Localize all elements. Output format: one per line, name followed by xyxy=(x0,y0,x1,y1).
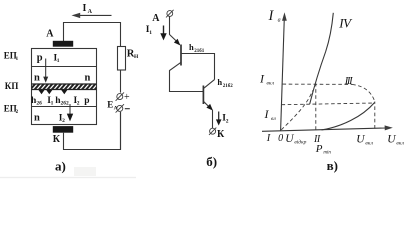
svg-text:б): б) xyxy=(206,154,217,169)
svg-text:1: 1 xyxy=(57,58,60,64)
svg-text:вл: вл xyxy=(271,116,276,122)
svg-text:а: а xyxy=(278,18,281,24)
svg-text:відкр: відкр xyxy=(294,138,306,145)
svg-text:вкл: вкл xyxy=(365,140,373,146)
svg-text:1: 1 xyxy=(51,101,54,107)
svg-text:I: I xyxy=(83,3,87,14)
svg-text:h: h xyxy=(189,42,194,52)
svg-text:+: + xyxy=(124,92,130,103)
svg-text:21б2: 21б2 xyxy=(223,84,234,89)
svg-text:p: p xyxy=(84,96,89,106)
svg-text:А: А xyxy=(46,29,54,40)
svg-text:2: 2 xyxy=(77,101,80,107)
svg-text:вкл: вкл xyxy=(396,140,404,146)
svg-text:КП: КП xyxy=(5,81,19,91)
svg-text:P: P xyxy=(315,143,323,155)
svg-text:U: U xyxy=(285,133,294,145)
svg-text:n: n xyxy=(85,72,91,83)
svg-text:n: n xyxy=(34,72,40,83)
svg-text:2: 2 xyxy=(226,118,229,124)
svg-text:а): а) xyxy=(55,159,66,174)
svg-text:А: А xyxy=(88,9,93,15)
svg-text:U: U xyxy=(356,133,365,145)
svg-text:Н: Н xyxy=(134,54,139,60)
svg-text:0: 0 xyxy=(278,133,283,144)
svg-text:Е: Е xyxy=(107,100,113,110)
svg-text:К: К xyxy=(217,129,225,140)
svg-text:h: h xyxy=(217,77,222,87)
svg-text:p: p xyxy=(37,52,43,63)
svg-text:1: 1 xyxy=(149,30,152,36)
svg-text:I: I xyxy=(266,133,271,144)
svg-text:2: 2 xyxy=(62,118,65,124)
svg-text:2б: 2б xyxy=(36,100,42,107)
svg-text:вкл: вкл xyxy=(267,80,275,86)
svg-text:2б2: 2б2 xyxy=(61,100,70,107)
svg-text:К: К xyxy=(53,134,61,145)
svg-text:21б1: 21б1 xyxy=(194,49,205,54)
svg-text:в): в) xyxy=(327,158,338,173)
svg-text:min: min xyxy=(323,151,331,156)
svg-text:А: А xyxy=(152,13,160,24)
svg-text:U: U xyxy=(387,133,396,145)
svg-text:n: n xyxy=(34,112,40,123)
